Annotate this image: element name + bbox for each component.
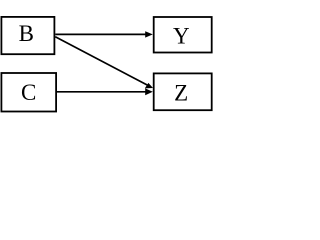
box Z bbox=[154, 73, 212, 110]
svg-text:Z: Z bbox=[174, 81, 188, 106]
svg-text:B: B bbox=[19, 21, 34, 46]
arrow C to Z bbox=[56, 88, 153, 95]
arrow B to Y bbox=[55, 31, 153, 37]
box Y bbox=[154, 17, 212, 53]
box B bbox=[1, 17, 54, 54]
arrow B to Z bbox=[55, 37, 153, 89]
box C bbox=[1, 73, 56, 112]
svg-text:C: C bbox=[21, 80, 36, 105]
svg-text:Y: Y bbox=[173, 24, 190, 49]
